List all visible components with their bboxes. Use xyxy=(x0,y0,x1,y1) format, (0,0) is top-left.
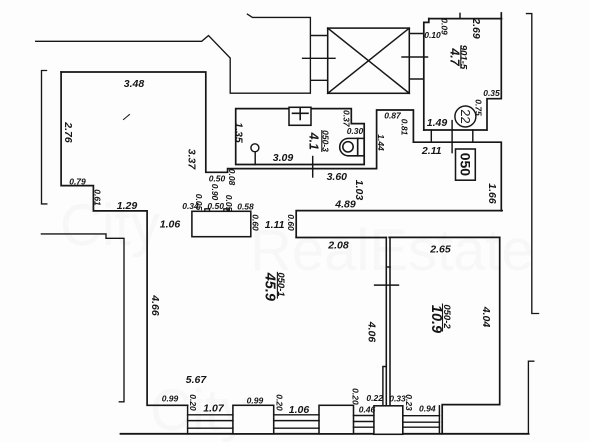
svg-text:0.33: 0.33 xyxy=(389,394,406,404)
svg-text:1.44: 1.44 xyxy=(376,134,386,151)
svg-text:1.03: 1.03 xyxy=(353,180,365,201)
svg-text:0.58: 0.58 xyxy=(237,202,254,212)
svg-text:0.79: 0.79 xyxy=(69,177,86,187)
svg-text:10.9: 10.9 xyxy=(428,305,444,333)
svg-text:0.22: 0.22 xyxy=(366,393,383,403)
svg-text:0.35: 0.35 xyxy=(483,88,500,98)
svg-text:1.06: 1.06 xyxy=(289,404,310,416)
svg-text:1.35: 1.35 xyxy=(233,122,245,143)
svg-text:2.08: 2.08 xyxy=(327,240,349,252)
svg-text:4.06: 4.06 xyxy=(366,321,378,343)
svg-text:2.65: 2.65 xyxy=(429,244,451,256)
svg-text:0.05: 0.05 xyxy=(224,195,234,212)
svg-text:0.05: 0.05 xyxy=(194,194,204,211)
svg-text:0.09: 0.09 xyxy=(440,18,450,35)
svg-text:4.04: 4.04 xyxy=(480,306,492,328)
svg-text:0.60: 0.60 xyxy=(286,214,296,231)
svg-text:0.87: 0.87 xyxy=(384,111,402,121)
svg-text:0.50: 0.50 xyxy=(207,201,224,211)
svg-text:1.07: 1.07 xyxy=(203,403,225,415)
svg-text:0.61: 0.61 xyxy=(92,189,102,206)
svg-text:2.76: 2.76 xyxy=(62,121,74,143)
svg-text:1.49: 1.49 xyxy=(427,117,448,129)
svg-text:22: 22 xyxy=(458,109,473,123)
svg-text:0.94: 0.94 xyxy=(419,404,436,414)
svg-text:1.66: 1.66 xyxy=(486,183,498,204)
svg-text:0.23: 0.23 xyxy=(404,394,414,411)
svg-text:4.89: 4.89 xyxy=(334,199,356,211)
svg-text:4.1: 4.1 xyxy=(306,132,320,150)
svg-text:1.29: 1.29 xyxy=(117,200,138,212)
svg-text:0.60: 0.60 xyxy=(250,214,260,231)
svg-text:0.20: 0.20 xyxy=(274,394,284,411)
svg-text:0.81: 0.81 xyxy=(399,119,409,136)
svg-text:0.75: 0.75 xyxy=(473,99,483,116)
svg-text:2.69: 2.69 xyxy=(470,17,482,39)
svg-text:0.30: 0.30 xyxy=(347,126,364,136)
svg-text:0.08: 0.08 xyxy=(227,169,237,186)
svg-text:3.60: 3.60 xyxy=(327,171,348,183)
svg-text:0.50: 0.50 xyxy=(209,174,226,184)
svg-text:4.7: 4.7 xyxy=(448,47,462,66)
svg-text:3.37: 3.37 xyxy=(186,149,198,171)
svg-text:0.20: 0.20 xyxy=(351,388,361,405)
svg-text:City: City xyxy=(60,193,160,258)
svg-text:3.48: 3.48 xyxy=(124,78,145,90)
svg-text:050: 050 xyxy=(458,153,474,177)
svg-text:1.06: 1.06 xyxy=(160,219,181,231)
svg-text:0.99: 0.99 xyxy=(247,396,264,406)
svg-text:1.11: 1.11 xyxy=(265,219,285,231)
svg-text:2.11: 2.11 xyxy=(421,145,442,157)
svg-text:5.67: 5.67 xyxy=(186,374,208,386)
svg-text:4.66: 4.66 xyxy=(149,294,161,316)
svg-text:0.90: 0.90 xyxy=(210,184,220,201)
svg-text:3.09: 3.09 xyxy=(273,152,294,164)
svg-text:45.9: 45.9 xyxy=(262,272,278,301)
svg-text:0.46: 0.46 xyxy=(359,405,376,415)
svg-text:0.20: 0.20 xyxy=(188,394,198,411)
svg-text:0.37: 0.37 xyxy=(341,110,351,128)
svg-text:0.10: 0.10 xyxy=(424,30,441,40)
svg-text:0.99: 0.99 xyxy=(162,394,179,404)
